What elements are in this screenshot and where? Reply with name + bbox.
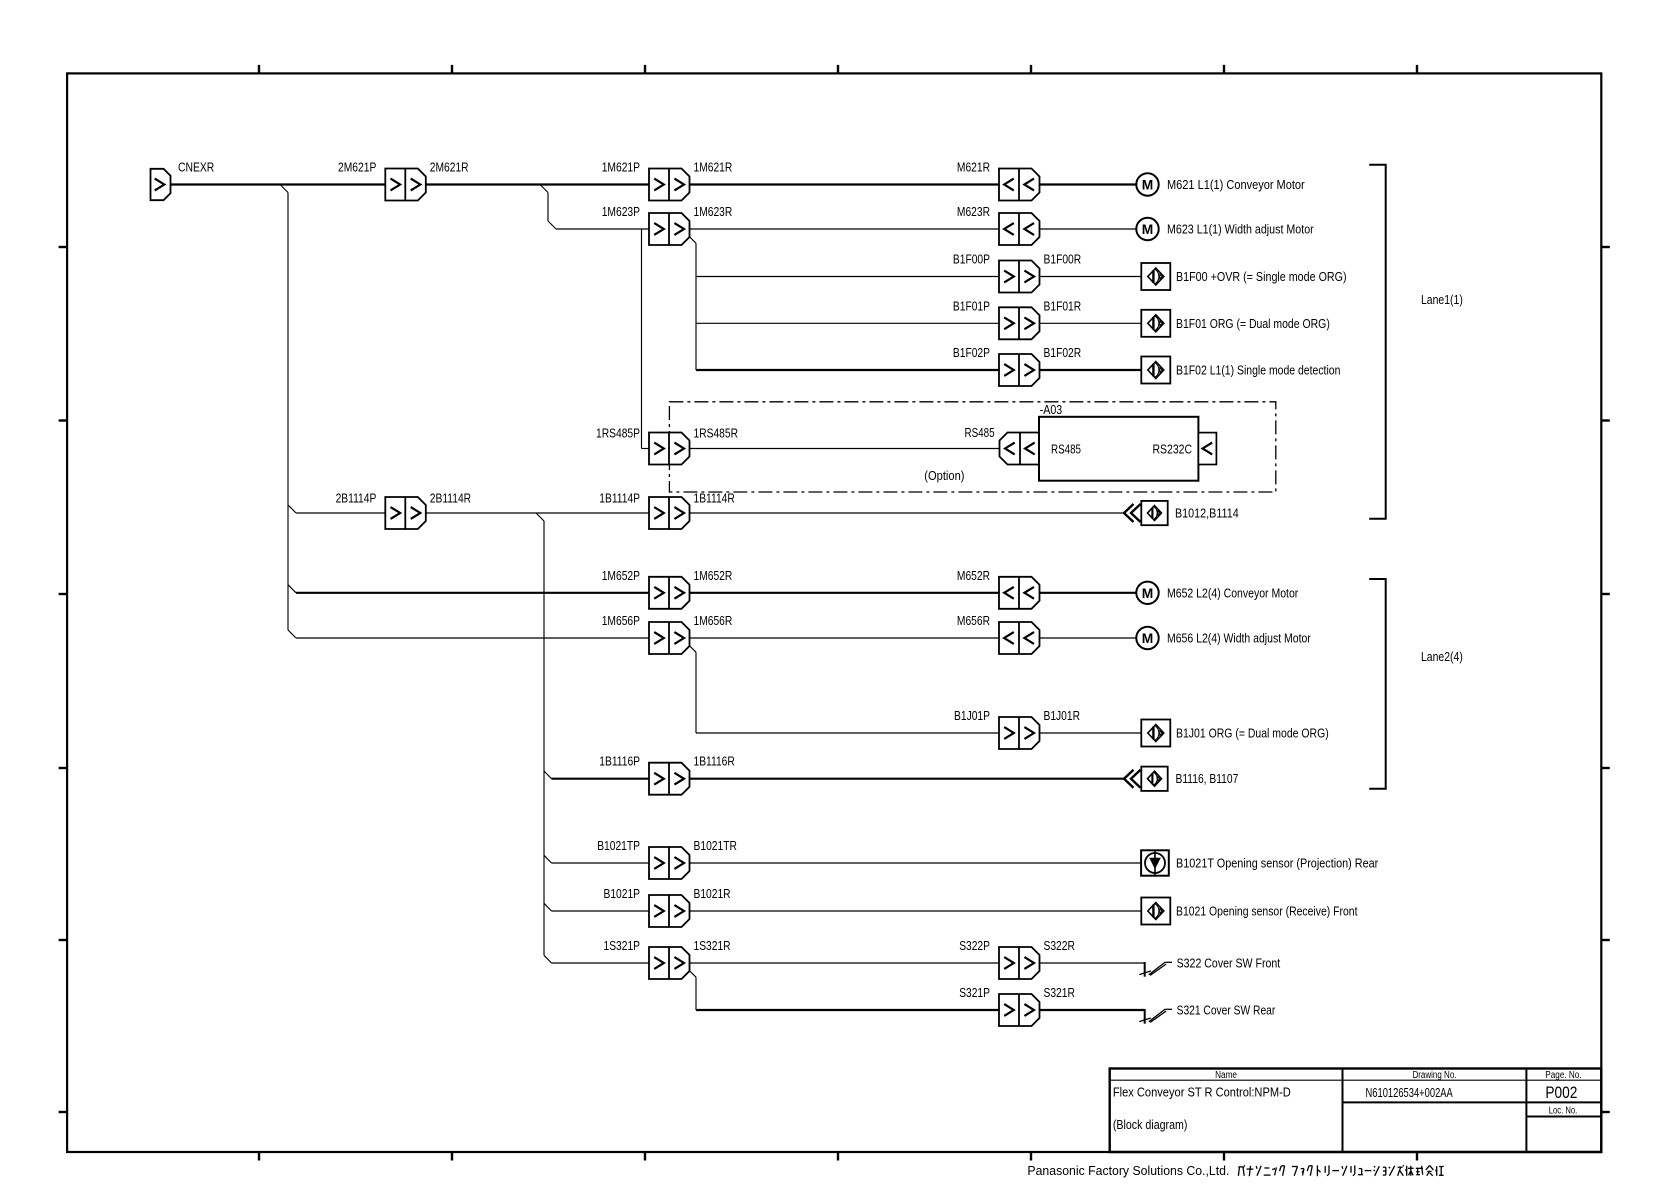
- svg-text:(Option): (Option): [924, 468, 964, 483]
- svg-text:S322P: S322P: [959, 938, 990, 953]
- svg-text:S321P: S321P: [959, 985, 990, 1000]
- svg-text:Name: Name: [1215, 1070, 1237, 1081]
- svg-text:M: M: [1142, 221, 1154, 237]
- svg-text:1S321P: 1S321P: [604, 938, 641, 953]
- svg-text:B1F00P: B1F00P: [953, 252, 990, 267]
- svg-text:B1021R: B1021R: [694, 886, 731, 901]
- svg-text:B1021T Opening sensor (Projec: B1021T Opening sensor (Projection) Rear: [1176, 856, 1379, 871]
- svg-text:Drawing No.: Drawing No.: [1413, 1070, 1457, 1081]
- svg-text:N610126534+002AA: N610126534+002AA: [1366, 1085, 1454, 1100]
- svg-text:B1J01 ORG (= Dual mode ORG): B1J01 ORG (= Dual mode ORG): [1176, 726, 1329, 741]
- svg-text:B1021TP: B1021TP: [597, 838, 640, 853]
- svg-text:B1012,B1114: B1012,B1114: [1175, 506, 1239, 521]
- svg-text:RS485: RS485: [1051, 442, 1081, 457]
- svg-text:M: M: [1142, 177, 1154, 193]
- svg-text:S322 Cover SW Front: S322 Cover SW Front: [1177, 956, 1281, 971]
- svg-text:B1J01R: B1J01R: [1044, 708, 1081, 723]
- svg-text:2B1114P: 2B1114P: [336, 491, 377, 506]
- svg-text:B1F01 ORG (= Dual mode ORG): B1F01 ORG (= Dual mode ORG): [1176, 316, 1330, 331]
- svg-text:1M656P: 1M656P: [602, 613, 640, 628]
- svg-text:Panasonic Factory Solutions Co: Panasonic Factory Solutions Co.,Ltd.: [1027, 1163, 1229, 1178]
- svg-text:M652 L2(4) Conveyor Motor: M652 L2(4) Conveyor Motor: [1167, 585, 1299, 600]
- svg-text:1RS485R: 1RS485R: [694, 426, 739, 441]
- svg-text:M623R: M623R: [957, 204, 990, 219]
- svg-text:Loc. No.: Loc. No.: [1549, 1106, 1578, 1117]
- svg-text:B1F01P: B1F01P: [953, 298, 990, 313]
- svg-text:1M623P: 1M623P: [602, 204, 640, 219]
- svg-text:1M621R: 1M621R: [694, 160, 733, 175]
- svg-text:-A03: -A03: [1040, 402, 1063, 417]
- svg-text:2M621R: 2M621R: [430, 160, 469, 175]
- svg-text:M656 L2(4) Width adjust Motor: M656 L2(4) Width adjust Motor: [1167, 631, 1311, 646]
- svg-text:1B1114P: 1B1114P: [599, 491, 640, 506]
- svg-text:S322R: S322R: [1044, 938, 1075, 953]
- svg-text:1RS485P: 1RS485P: [596, 426, 640, 441]
- svg-text:B1F02P: B1F02P: [953, 345, 990, 360]
- svg-text:B1F02 L1(1) Single mode detec: B1F02 L1(1) Single mode detection: [1176, 363, 1340, 378]
- svg-text:B1021 Opening sensor (Receive: B1021 Opening sensor (Receive) Front: [1176, 904, 1358, 919]
- svg-text:CNEXR: CNEXR: [178, 160, 214, 175]
- svg-text:1M652R: 1M652R: [694, 568, 733, 583]
- svg-text:M623 L1(1) Width adjust Moto: M623 L1(1) Width adjust Motor: [1167, 222, 1314, 237]
- svg-text:RS485: RS485: [965, 425, 995, 440]
- svg-text:RS232C: RS232C: [1153, 442, 1193, 457]
- svg-text:Flex Conveyor ST R Control:NPM: Flex Conveyor ST R Control:NPM-D: [1113, 1084, 1291, 1099]
- svg-text:M652R: M652R: [957, 568, 990, 583]
- svg-text:1M652P: 1M652P: [602, 568, 640, 583]
- svg-text:1B1116R: 1B1116R: [694, 754, 735, 769]
- svg-text:M: M: [1142, 585, 1154, 601]
- svg-text:M656R: M656R: [957, 613, 990, 628]
- svg-text:B1F00 +OVR (= Single mode ORG: B1F00 +OVR (= Single mode ORG): [1176, 269, 1347, 284]
- svg-text:B1F00R: B1F00R: [1044, 252, 1082, 267]
- svg-text:(Block diagram): (Block diagram): [1113, 1117, 1188, 1132]
- svg-text:1S321R: 1S321R: [694, 938, 731, 953]
- svg-text:Page. No.: Page. No.: [1545, 1070, 1581, 1081]
- svg-text:Lane2(4): Lane2(4): [1421, 649, 1463, 664]
- svg-text:B1021P: B1021P: [604, 886, 641, 901]
- svg-text:B1F02R: B1F02R: [1044, 345, 1082, 360]
- svg-text:B1F01R: B1F01R: [1044, 298, 1082, 313]
- svg-text:1B1114R: 1B1114R: [694, 491, 735, 506]
- svg-text:B1021TR: B1021TR: [694, 838, 737, 853]
- svg-text:P002: P002: [1545, 1083, 1577, 1102]
- svg-text:2M621P: 2M621P: [338, 160, 376, 175]
- svg-text:1M656R: 1M656R: [694, 613, 733, 628]
- svg-text:1M621P: 1M621P: [602, 160, 640, 175]
- svg-text:M: M: [1142, 630, 1154, 646]
- svg-text:B1116, B1107: B1116, B1107: [1176, 771, 1239, 786]
- svg-text:Lane1(1): Lane1(1): [1421, 292, 1463, 307]
- svg-text:S321R: S321R: [1044, 985, 1075, 1000]
- svg-text:2B1114R: 2B1114R: [430, 491, 471, 506]
- svg-text:1M623R: 1M623R: [694, 204, 733, 219]
- svg-text:M621R: M621R: [957, 160, 990, 175]
- svg-text:B1J01P: B1J01P: [954, 708, 990, 723]
- svg-text:1B1116P: 1B1116P: [599, 754, 640, 769]
- svg-text:S321 Cover SW Rear: S321 Cover SW Rear: [1177, 1003, 1276, 1018]
- svg-text:M621 L1(1) Conveyor Motor: M621 L1(1) Conveyor Motor: [1167, 177, 1305, 192]
